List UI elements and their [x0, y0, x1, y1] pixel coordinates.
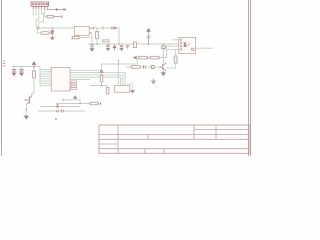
resistor R row1 a	[139, 56, 148, 59]
resistor R1 row	[47, 15, 62, 19]
ground below D1	[51, 38, 55, 40]
frame row tick marks left edge	[3, 61, 6, 66]
RF box module	[114, 86, 130, 93]
net stub tick above route corner	[117, 60, 119, 63]
wire regulator lower loop	[72, 35, 92, 40]
wire down from output rail	[118, 28, 120, 44]
wire bus vertical to IC left pins	[39, 67, 41, 86]
title block middle row divider	[147, 135, 149, 140]
IC1 left pin wires	[40, 70, 51, 86]
diode D1 to ground	[51, 28, 54, 37]
ground right of RF box	[128, 84, 135, 93]
capacitor C at x121.5 with arrow	[120, 44, 124, 51]
wire collector link	[32, 93, 34, 96]
wire switch output	[196, 47, 213, 49]
title block outer box	[99, 125, 250, 153]
capacitor C loop capsule	[72, 36, 79, 39]
net tick end	[100, 102, 102, 105]
supply arrow with capacitor above rail x148.5	[147, 28, 151, 44]
frame left border	[1, 0, 3, 156]
switch S1 pins	[180, 39, 182, 50]
title block left column	[99, 125, 118, 153]
title block bottom row dividers	[145, 149, 164, 154]
glyph b on y111	[62, 110, 63, 113]
polarized marker on y106.5	[57, 104, 59, 108]
resistor R row2	[131, 66, 140, 69]
wire row y57	[136, 57, 166, 59]
ground below regulator	[90, 47, 94, 51]
junction dot row	[79, 103, 81, 105]
wire pin1 down	[32, 9, 34, 16]
ground below Q1	[24, 116, 28, 119]
capacitor C row2	[144, 65, 146, 69]
wire pin2 down	[35, 9, 37, 16]
wire y64 to riser x137.3	[118, 59, 137, 64]
switch S1 output pin circle	[192, 48, 195, 51]
wire pin4 jog	[39, 9, 44, 26]
resistor R row y103.5	[90, 102, 98, 105]
wire regulator gnd vertical	[91, 33, 93, 44]
small resistor horizontal near regulator	[103, 40, 110, 42]
resistor R row1 b	[150, 56, 159, 59]
node junction circle (input net)	[37, 27, 39, 29]
small red mark y119	[55, 118, 57, 119]
wire main lower rail	[88, 43, 179, 45]
net arrow left (row y57)	[134, 56, 137, 59]
wire green bottom left y111	[38, 110, 85, 112]
resistor pack right of IC1	[71, 81, 77, 90]
capacitor C left b	[19, 67, 23, 76]
transistor Q1	[24, 96, 32, 105]
voltage regulator IC2	[74, 26, 89, 35]
wire regulator output rail	[94, 27, 120, 29]
title block main rows	[118, 135, 250, 149]
wire transistor collector drop	[163, 49, 165, 63]
resistor R vertical at regulator	[96, 28, 99, 44]
glyph a on y111	[57, 110, 58, 113]
small box below rail x163.5	[162, 44, 165, 49]
wire horizontal y85.5	[90, 85, 108, 87]
junction dot x101.5 y85.5	[101, 63, 120, 86]
IC1 main box	[51, 68, 70, 92]
ground faint x153	[152, 79, 156, 84]
capacitor C left a	[12, 67, 16, 76]
fuse F1	[41, 32, 49, 35]
supply arrow at x101.5	[100, 70, 103, 76]
junction dot emitter	[25, 109, 27, 111]
wire main input rail to regulator	[39, 27, 74, 29]
resistor R vertical x34	[33, 67, 36, 94]
connector J1 pin circles	[32, 3, 48, 5]
connector J1 body	[31, 2, 49, 6]
wire fuse loop	[37, 29, 52, 33]
small glyph row2	[151, 66, 154, 69]
connector J1 pin stubs	[33, 7, 47, 10]
junction dots on lower rail	[91, 43, 164, 58]
resistor R vertical right of transistor	[166, 49, 177, 68]
supply arrow x75 y97	[74, 96, 77, 100]
regulator output pins	[89, 28, 93, 33]
open circle node below regulator	[91, 45, 93, 47]
capacitor C at x127.5	[126, 44, 130, 49]
wire top caps rail left	[12, 66, 40, 68]
wire pin routes into module	[90, 73, 125, 86]
resistor R vertical below rail x135	[134, 42, 137, 48]
resistor R vertical x103.6	[100, 70, 103, 85]
capacitor C at x108 with ground	[106, 44, 110, 51]
wire row y103.5	[56, 103, 101, 105]
net marker circle+arrow	[111, 27, 117, 29]
IC1 right pin wires	[70, 70, 90, 79]
wire emitter down	[25, 105, 27, 117]
switch box S1	[179, 37, 196, 53]
frame right border (double line)	[249, 0, 251, 156]
wire pin3 down to node	[36, 9, 39, 27]
junction dot x34 y66.5	[13, 66, 35, 68]
junction crosses on output rail	[94, 27, 104, 30]
supply arrow above x34	[32, 62, 36, 67]
wire pin5 to resistor row	[44, 9, 46, 17]
wire vcc jog to row	[63, 99, 80, 104]
wire top right route to box	[90, 64, 118, 86]
title block top-right cells	[194, 125, 250, 139]
net stub with diode D and arrow (top)	[47, 9, 66, 11]
wire pin6 right	[46, 9, 48, 11]
ground below transistor	[161, 71, 165, 75]
junction dot at D1	[52, 27, 54, 29]
supply arrow up at x114	[113, 45, 116, 51]
switch S1 mechanism	[184, 43, 191, 47]
wire mid bottom left y106.5	[40, 106, 80, 108]
wire row y67	[126, 66, 163, 68]
resistor R vertical x107.5	[106, 86, 109, 95]
transistor Q2	[160, 63, 167, 71]
wires into switch	[167, 40, 179, 58]
